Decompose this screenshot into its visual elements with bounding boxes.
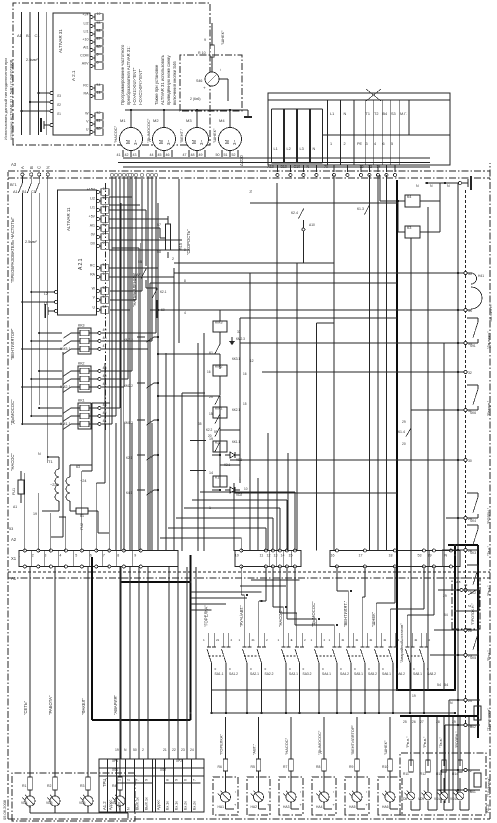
svg-text:45: 45: [158, 153, 162, 157]
svg-text:"ШНЕК": "ШНЕК": [383, 740, 388, 755]
svg-text:−: −: [218, 68, 223, 71]
svg-text:7: 7: [136, 779, 140, 781]
svg-text:14: 14: [209, 471, 213, 475]
wire phase bus C1: [31, 190, 39, 405]
wire coil common bus: [240, 318, 397, 483]
svg-text:приведённую ниже схему: приведённую ниже схему: [166, 55, 171, 105]
wire phase bus B1: [22, 190, 31, 415]
svg-text:"Т.уход.газов": "Т.уход.газов": [487, 708, 491, 731]
node 2.5mm2 label: [26, 58, 38, 62]
svg-text:1: 1: [253, 638, 255, 642]
svg-text:"ГОРЕЛКА": "ГОРЕЛКА": [219, 734, 224, 755]
wire bold riser x241: [120, 581, 191, 583]
wire bold bus 2: [190, 555, 192, 720]
svg-text:А1: А1: [11, 576, 17, 581]
svg-text:0: 0: [229, 667, 231, 671]
contact KM1.2: [124, 419, 159, 425]
svg-text:29: 29: [402, 420, 406, 424]
svg-text:М: М: [225, 140, 231, 144]
lamp НА6 "ШНЕК": [378, 717, 402, 815]
svg-text:"РАБОТА": "РАБОТА": [48, 695, 53, 715]
svg-text:RA: RA: [84, 92, 90, 96]
lamp НА3 "НАСОС": [279, 717, 303, 815]
transistor KM3.1 contactor + KK3 thermal: [21, 324, 106, 355]
node KM2.3 arrow: [229, 337, 245, 345]
svg-text:+: +: [397, 803, 402, 806]
relay K1 coil: [209, 442, 231, 511]
svg-text:XP2: XP2: [176, 759, 182, 763]
contact K2.1 aux: [146, 288, 167, 318]
breaker VG1: [10, 176, 39, 199]
switch SA3.1 SA3.2 "НАСОС": [278, 609, 312, 715]
svg-text:С: С: [37, 166, 42, 169]
lamp НА5 "ВЕНТИЛЯТОР": [345, 717, 369, 815]
svg-text:16: 16: [243, 372, 247, 376]
svg-text:+: +: [233, 803, 238, 806]
ground sensor N: [459, 176, 472, 190]
svg-text:0: 0: [396, 667, 398, 671]
svg-text:COM: COM: [80, 54, 88, 58]
svg-text:"Т.бойлера": "Т.бойлера": [487, 777, 491, 797]
wire B1 phase line: [26, 12, 32, 135]
node A1.1 box: [12, 773, 135, 821]
svg-text:26: 26: [412, 720, 416, 724]
svg-text:Вх.2к: Вх.2к: [193, 801, 197, 810]
svg-text:КК1.1: КК1.1: [232, 440, 240, 444]
switch SA1.1 SA1.2 "ГОРЕЛКА": [203, 605, 238, 714]
svg-text:XS1: XS1: [112, 768, 118, 772]
svg-text:I-O>AI1t>0U>"ENT": I-O>AI1t>0U>"ENT": [132, 67, 137, 105]
svg-text:11: 11: [260, 554, 264, 558]
svg-text:~220: ~220: [50, 483, 59, 487]
svg-text:72: 72: [360, 165, 364, 169]
node sensor BK2: [467, 700, 491, 731]
switch SK5 sensor: [467, 630, 491, 661]
wire A3 outgoing stubs: [268, 165, 397, 177]
resistor R10: [198, 23, 214, 72]
switch SK6 sensor: [467, 385, 491, 416]
wire TRC outputs: [112, 185, 196, 759]
svg-text:1: 1: [371, 638, 373, 642]
svg-text:2: 2: [103, 232, 105, 236]
svg-text:51: 51: [97, 119, 101, 123]
svg-text:−: −: [298, 790, 303, 793]
svg-text:К3: К3: [407, 226, 411, 230]
wire relay zone horizontals: [150, 183, 297, 551]
node supply terminals A B C N: [20, 166, 50, 176]
svg-text:T1: T1: [366, 112, 370, 116]
svg-text:47: 47: [183, 153, 187, 157]
svg-text:43: 43: [133, 153, 137, 157]
svg-text:N: N: [307, 165, 310, 169]
wire relay zone verticals: [109, 197, 398, 493]
svg-text:SA5.1: SA5.1: [354, 672, 363, 676]
node misc labels relay zone: [198, 330, 254, 491]
svg-text:+: +: [202, 86, 207, 89]
wire phase bus A1: [13, 190, 22, 425]
switch SA8.1 emergency stop: [399, 623, 436, 714]
svg-text:50: 50: [103, 305, 107, 309]
wire A3 to K3K4 zone: [297, 175, 387, 263]
svg-text:41: 41: [103, 419, 107, 423]
wire bold bus 19: [91, 557, 93, 720]
wire switch zone extra routes: [191, 567, 300, 634]
wire bold main N bus: [396, 180, 398, 690]
svg-text:M2: M2: [153, 118, 159, 123]
svg-text:AI1: AI1: [83, 46, 88, 50]
svg-text:"Рн.к.": "Рн.к.": [487, 650, 491, 661]
svg-text:35: 35: [198, 422, 202, 426]
svg-text:57: 57: [157, 223, 161, 227]
svg-text:61: 61: [209, 351, 213, 355]
node note text top: [3, 58, 14, 140]
svg-text:M1: M1: [120, 118, 126, 123]
svg-text:44: 44: [103, 382, 107, 386]
svg-text:КК3.1: КК3.1: [232, 357, 240, 361]
svg-text:13: 13: [274, 554, 278, 558]
svg-text:1: 1: [291, 638, 293, 642]
svg-text:SK6: SK6: [470, 411, 476, 415]
svg-text:15: 15: [243, 402, 247, 406]
svg-text:−: −: [331, 790, 336, 793]
svg-text:0: 0: [340, 667, 342, 671]
transistor KM1.1 contactor + KK1 thermal: [21, 399, 106, 430]
svg-text:Вх.1к: Вх.1к: [175, 801, 179, 810]
svg-text:КМ2: КМ2: [215, 365, 223, 369]
svg-text:Вх.2к: Вх.2к: [184, 801, 188, 810]
svg-text:VD4: VD4: [21, 801, 28, 805]
svg-text:0: 0: [289, 667, 291, 671]
svg-text:2: 2: [344, 142, 346, 146]
svg-text:RA: RA: [90, 272, 96, 276]
node SKOROST label: [186, 229, 191, 255]
node A1.3 box: [400, 753, 490, 815]
svg-text:2 (6х6): 2 (6х6): [190, 97, 201, 101]
switch S91 sensor: [467, 318, 491, 349]
lamp НА1 "ГОРЕЛКА": [213, 717, 238, 815]
svg-text:1: 1: [278, 638, 280, 642]
svg-text:КМ2.3: КМ2.3: [236, 337, 245, 341]
svg-text:А1: А1: [13, 505, 17, 509]
svg-text:"АВТ.": "АВТ.": [252, 743, 257, 755]
node 54 19 labels: [412, 683, 453, 705]
svg-text:17: 17: [359, 554, 363, 558]
svg-text:"ВЕНТ.": "ВЕНТ.": [179, 128, 184, 143]
lamp VD9 "Рв.в.": [418, 716, 437, 810]
svg-text:К2: К2: [215, 441, 219, 445]
svg-text:47: 47: [103, 344, 107, 348]
svg-text:+10: +10: [82, 38, 88, 42]
svg-text:8: 8: [184, 279, 186, 283]
svg-text:51: 51: [224, 153, 228, 157]
svg-text:R9: R9: [349, 765, 353, 769]
svg-text:Х1: Х1: [11, 556, 17, 561]
svg-text:28: 28: [436, 720, 440, 724]
wire bold A1.3 riser: [400, 715, 478, 717]
svg-text:RC: RC: [83, 84, 89, 88]
node install note text: [154, 54, 177, 105]
svg-text:ALTIVAR 31 использовать: ALTIVAR 31 использовать: [160, 54, 165, 105]
svg-text:SA6.2: SA6.2: [396, 672, 405, 676]
svg-text:4: 4: [374, 142, 376, 146]
svg-text:Использовать данный тип подклю: Использовать данный тип подключения при: [3, 58, 8, 140]
svg-text:54: 54: [437, 683, 441, 687]
svg-text:9: 9: [97, 61, 99, 65]
node programming note text: [120, 44, 143, 105]
svg-text:26: 26: [468, 629, 472, 633]
lamp VD10 "Тв.в.": [434, 716, 453, 810]
svg-text:SK3: SK3: [470, 551, 476, 555]
transistor KM2.1 contactor + KK2 thermal: [21, 362, 106, 393]
node A2/A3 boundary double dash-dot: [8, 171, 490, 178]
svg-text:19: 19: [33, 512, 37, 516]
svg-text:R11: R11: [403, 772, 409, 776]
svg-text:53: 53: [418, 554, 422, 558]
svg-text:+24: +24: [82, 13, 88, 17]
contact KM3.2: [124, 336, 159, 342]
svg-text:ALTIVAR 11: ALTIVAR 11: [66, 207, 71, 231]
svg-text:НА4: НА4: [316, 805, 323, 809]
wire A1 phase line: [17, 12, 23, 135]
node sensor BK1: [467, 770, 491, 797]
node 2.5mm2 main label: [25, 240, 37, 244]
svg-text:10: 10: [244, 487, 248, 491]
svg-text:"РУЧ./АВТ.": "РУЧ./АВТ.": [239, 604, 244, 627]
svg-text:12: 12: [103, 187, 107, 191]
svg-text:0: 0: [413, 667, 415, 671]
wire K3 K4 feeds: [411, 207, 428, 551]
svg-text:LI2: LI2: [84, 22, 89, 26]
fuse FU2: [76, 508, 109, 533]
svg-text:"ДЫМОСОС": "ДЫМОСОС": [10, 399, 15, 425]
relay KM2 coil: [209, 354, 240, 420]
node note block terminal row: [80, 12, 103, 135]
svg-text:Δ 220: Δ 220: [239, 155, 244, 166]
wire N line note box: [45, 12, 47, 135]
svg-text:К1: К1: [215, 476, 219, 480]
svg-text:М.Г.: М.Г.: [400, 112, 407, 116]
svg-text:0: 0: [382, 667, 384, 671]
node sensor dashed line: [465, 190, 467, 723]
svg-text:9: 9: [145, 779, 149, 781]
svg-text:12: 12: [250, 359, 254, 363]
svg-text:20: 20: [208, 434, 212, 438]
lamp H41 bell: [467, 273, 493, 323]
svg-text:58: 58: [103, 223, 107, 227]
node X2 boundary dash-dot: [105, 183, 107, 430]
svg-text:В1: В1: [26, 33, 32, 38]
svg-text:9: 9: [204, 38, 206, 42]
lamp НА2 "АВТ.": [247, 717, 271, 815]
svg-text:R2: R2: [47, 784, 52, 788]
wire X1 right horizontals: [25, 203, 141, 551]
svg-text:В10: В10: [281, 165, 287, 169]
svg-text:57: 57: [103, 214, 107, 218]
svg-text:1: 1: [311, 638, 313, 642]
svg-text:7: 7: [103, 554, 105, 558]
wire switch routing grid: [0, 551, 434, 633]
svg-text:54: 54: [103, 263, 107, 267]
svg-text:VD8: VD8: [401, 797, 407, 801]
svg-text:R4: R4: [112, 784, 117, 788]
svg-text:45: 45: [103, 374, 107, 378]
svg-text:29: 29: [452, 720, 456, 724]
svg-text:SA5.2: SA5.2: [368, 672, 377, 676]
svg-text:R7: R7: [283, 765, 287, 769]
wire bold riser x133: [211, 689, 455, 691]
svg-text:А: А: [20, 166, 25, 169]
svg-text:КМ2.2: КМ2.2: [124, 384, 133, 388]
svg-text:XS2: XS2: [160, 768, 166, 772]
svg-text:"НАСОС": "НАСОС": [278, 609, 283, 627]
contact K4.1: [126, 489, 159, 495]
svg-text:6: 6: [90, 554, 92, 558]
node A1.2 TRC block: [99, 759, 204, 812]
svg-text:Т1: Т1: [48, 459, 53, 464]
svg-text:0: 0: [250, 667, 252, 671]
node sensor terminal strip: [457, 271, 472, 793]
svg-text:К2.1: К2.1: [160, 290, 167, 294]
svg-text:"ФАКЕЛ": "ФАКЕЛ": [81, 698, 86, 715]
svg-text:"СЕТЬ": "СЕТЬ": [23, 700, 28, 715]
switch SA2.1 SA2.2 "РУЧ./АВТ.": [239, 604, 274, 714]
svg-text:КМ1: КМ1: [215, 407, 223, 411]
svg-text:N: N: [445, 554, 448, 558]
lamp VD11 "РОЗРН.": [450, 716, 469, 810]
svg-text:L2: L2: [44, 292, 48, 296]
svg-text:VD9: VD9: [418, 797, 424, 801]
svg-text:56: 56: [97, 29, 101, 33]
svg-text:N: N: [416, 184, 419, 188]
svg-text:R13: R13: [436, 772, 442, 776]
svg-text:КМ2.1: КМ2.1: [60, 385, 71, 389]
ground A2.1 PE: [45, 304, 58, 318]
lamp VD6 "ФАКЕЛ": [79, 567, 93, 814]
svg-text:"ШНЕК": "ШНЕК": [220, 30, 225, 45]
svg-text:16: 16: [331, 554, 335, 558]
wire sensor risers: [150, 273, 460, 460]
svg-text:SA7: SA7: [134, 273, 141, 277]
svg-text:1: 1: [385, 638, 387, 642]
svg-text:А1: А1: [17, 33, 23, 38]
wire switch pole collector: [212, 712, 457, 714]
svg-text:52: 52: [97, 111, 101, 115]
svg-text:Также при установке: Также при установке: [154, 64, 159, 105]
svg-text:Адрес: Адрес: [157, 800, 161, 810]
svg-text:М: М: [192, 140, 198, 144]
svg-text:8: 8: [166, 779, 170, 781]
svg-text:34: 34: [468, 309, 472, 313]
svg-text:ВК2: ВК2: [470, 725, 476, 729]
svg-text:9: 9: [175, 779, 179, 781]
svg-text:SK5: SK5: [470, 656, 476, 660]
svg-text:21: 21: [163, 748, 167, 752]
svg-text:0: 0: [215, 667, 217, 671]
svg-text:"ДЫМОСОС": "ДЫМОСОС": [146, 118, 151, 143]
svg-text:А10: А10: [268, 165, 274, 169]
svg-text:ВЫХ.1к: ВЫХ.1к: [145, 797, 149, 810]
svg-text:N: N: [38, 452, 41, 456]
svg-text:56: 56: [103, 205, 107, 209]
svg-text:+: +: [266, 803, 271, 806]
svg-text:PE: PE: [357, 142, 363, 146]
svg-text:5: 5: [391, 142, 393, 146]
svg-text:−: −: [266, 790, 271, 793]
relay KM3 coil: [209, 310, 240, 369]
svg-text:"НАСОС": "НАСОС": [113, 125, 118, 143]
svg-text:L2: L2: [287, 147, 291, 151]
svg-text:L1: L1: [330, 112, 334, 116]
svg-text:R10: R10: [382, 765, 388, 769]
wire T1 zone links: [51, 352, 110, 551]
svg-text:15: 15: [289, 554, 293, 558]
svg-text:+: +: [298, 803, 303, 806]
svg-text:2: 2: [127, 779, 131, 781]
svg-text:−: −: [397, 790, 402, 793]
svg-text:R1: R1: [22, 784, 27, 788]
svg-text:14: 14: [97, 91, 101, 95]
svg-text:49: 49: [103, 328, 107, 332]
svg-text:23: 23: [181, 748, 185, 752]
svg-text:54: 54: [444, 683, 448, 687]
wire X1 mid risers: [160, 492, 295, 551]
svg-text:41: 41: [117, 153, 121, 157]
svg-text:"Рв.в.": "Рв.в.": [423, 736, 427, 748]
svg-text:M4: M4: [219, 118, 225, 123]
svg-text:2.5мм²: 2.5мм²: [26, 58, 38, 62]
svg-text:КМ3.1: КМ3.1: [60, 347, 71, 351]
svg-text:R15: R15: [179, 243, 183, 250]
relay K3: [398, 226, 436, 238]
switch SK4 sensor: [467, 493, 491, 524]
node section labels top: [10, 217, 15, 471]
svg-text:НА2: НА2: [251, 805, 258, 809]
svg-text:3: 3: [366, 142, 368, 146]
svg-text:50: 50: [216, 153, 220, 157]
node date label: [2, 799, 7, 820]
svg-text:Л3: Л3: [57, 94, 61, 98]
op-amp A2.1 ALTIVAR main block: [58, 190, 97, 315]
svg-text:15: 15: [209, 412, 213, 416]
svg-text:"Рв.н.": "Рв.н.": [406, 736, 410, 748]
svg-text:3~: 3~: [166, 140, 171, 145]
svg-text:М: М: [159, 140, 165, 144]
svg-text:VD11: VD11: [450, 797, 458, 801]
svg-text:B4: B4: [383, 112, 388, 116]
svg-text:35: 35: [468, 272, 472, 276]
svg-text:2: 2: [324, 638, 326, 642]
svg-text:32: 32: [468, 371, 472, 375]
svg-text:К2.2: К2.2: [206, 428, 213, 432]
svg-text:W: W: [85, 112, 89, 116]
svg-text:В: В: [29, 166, 34, 169]
wire starter outputs to A3: [101, 174, 157, 551]
svg-text:N: N: [127, 807, 131, 810]
node route junction dots: [246, 590, 352, 626]
svg-text:Л1: Л1: [57, 112, 61, 116]
node A3 terminal block: [268, 93, 450, 165]
svg-text:"ДЫМОСОС": "ДЫМОСОС": [311, 601, 316, 627]
node zone labels A1 X1 A2: [11, 162, 17, 581]
svg-text:SA3.1: SA3.1: [289, 672, 298, 676]
svg-text:24: 24: [468, 699, 472, 703]
svg-text:"ВЕНТИЛЯТОР": "ВЕНТИЛЯТОР": [350, 724, 355, 755]
svg-text:N: N: [313, 147, 316, 151]
svg-text:1: 1: [118, 779, 122, 781]
wire motor PE line: [125, 109, 252, 128]
svg-text:Н41: Н41: [478, 274, 484, 278]
svg-text:SA4.1: SA4.1: [322, 672, 331, 676]
